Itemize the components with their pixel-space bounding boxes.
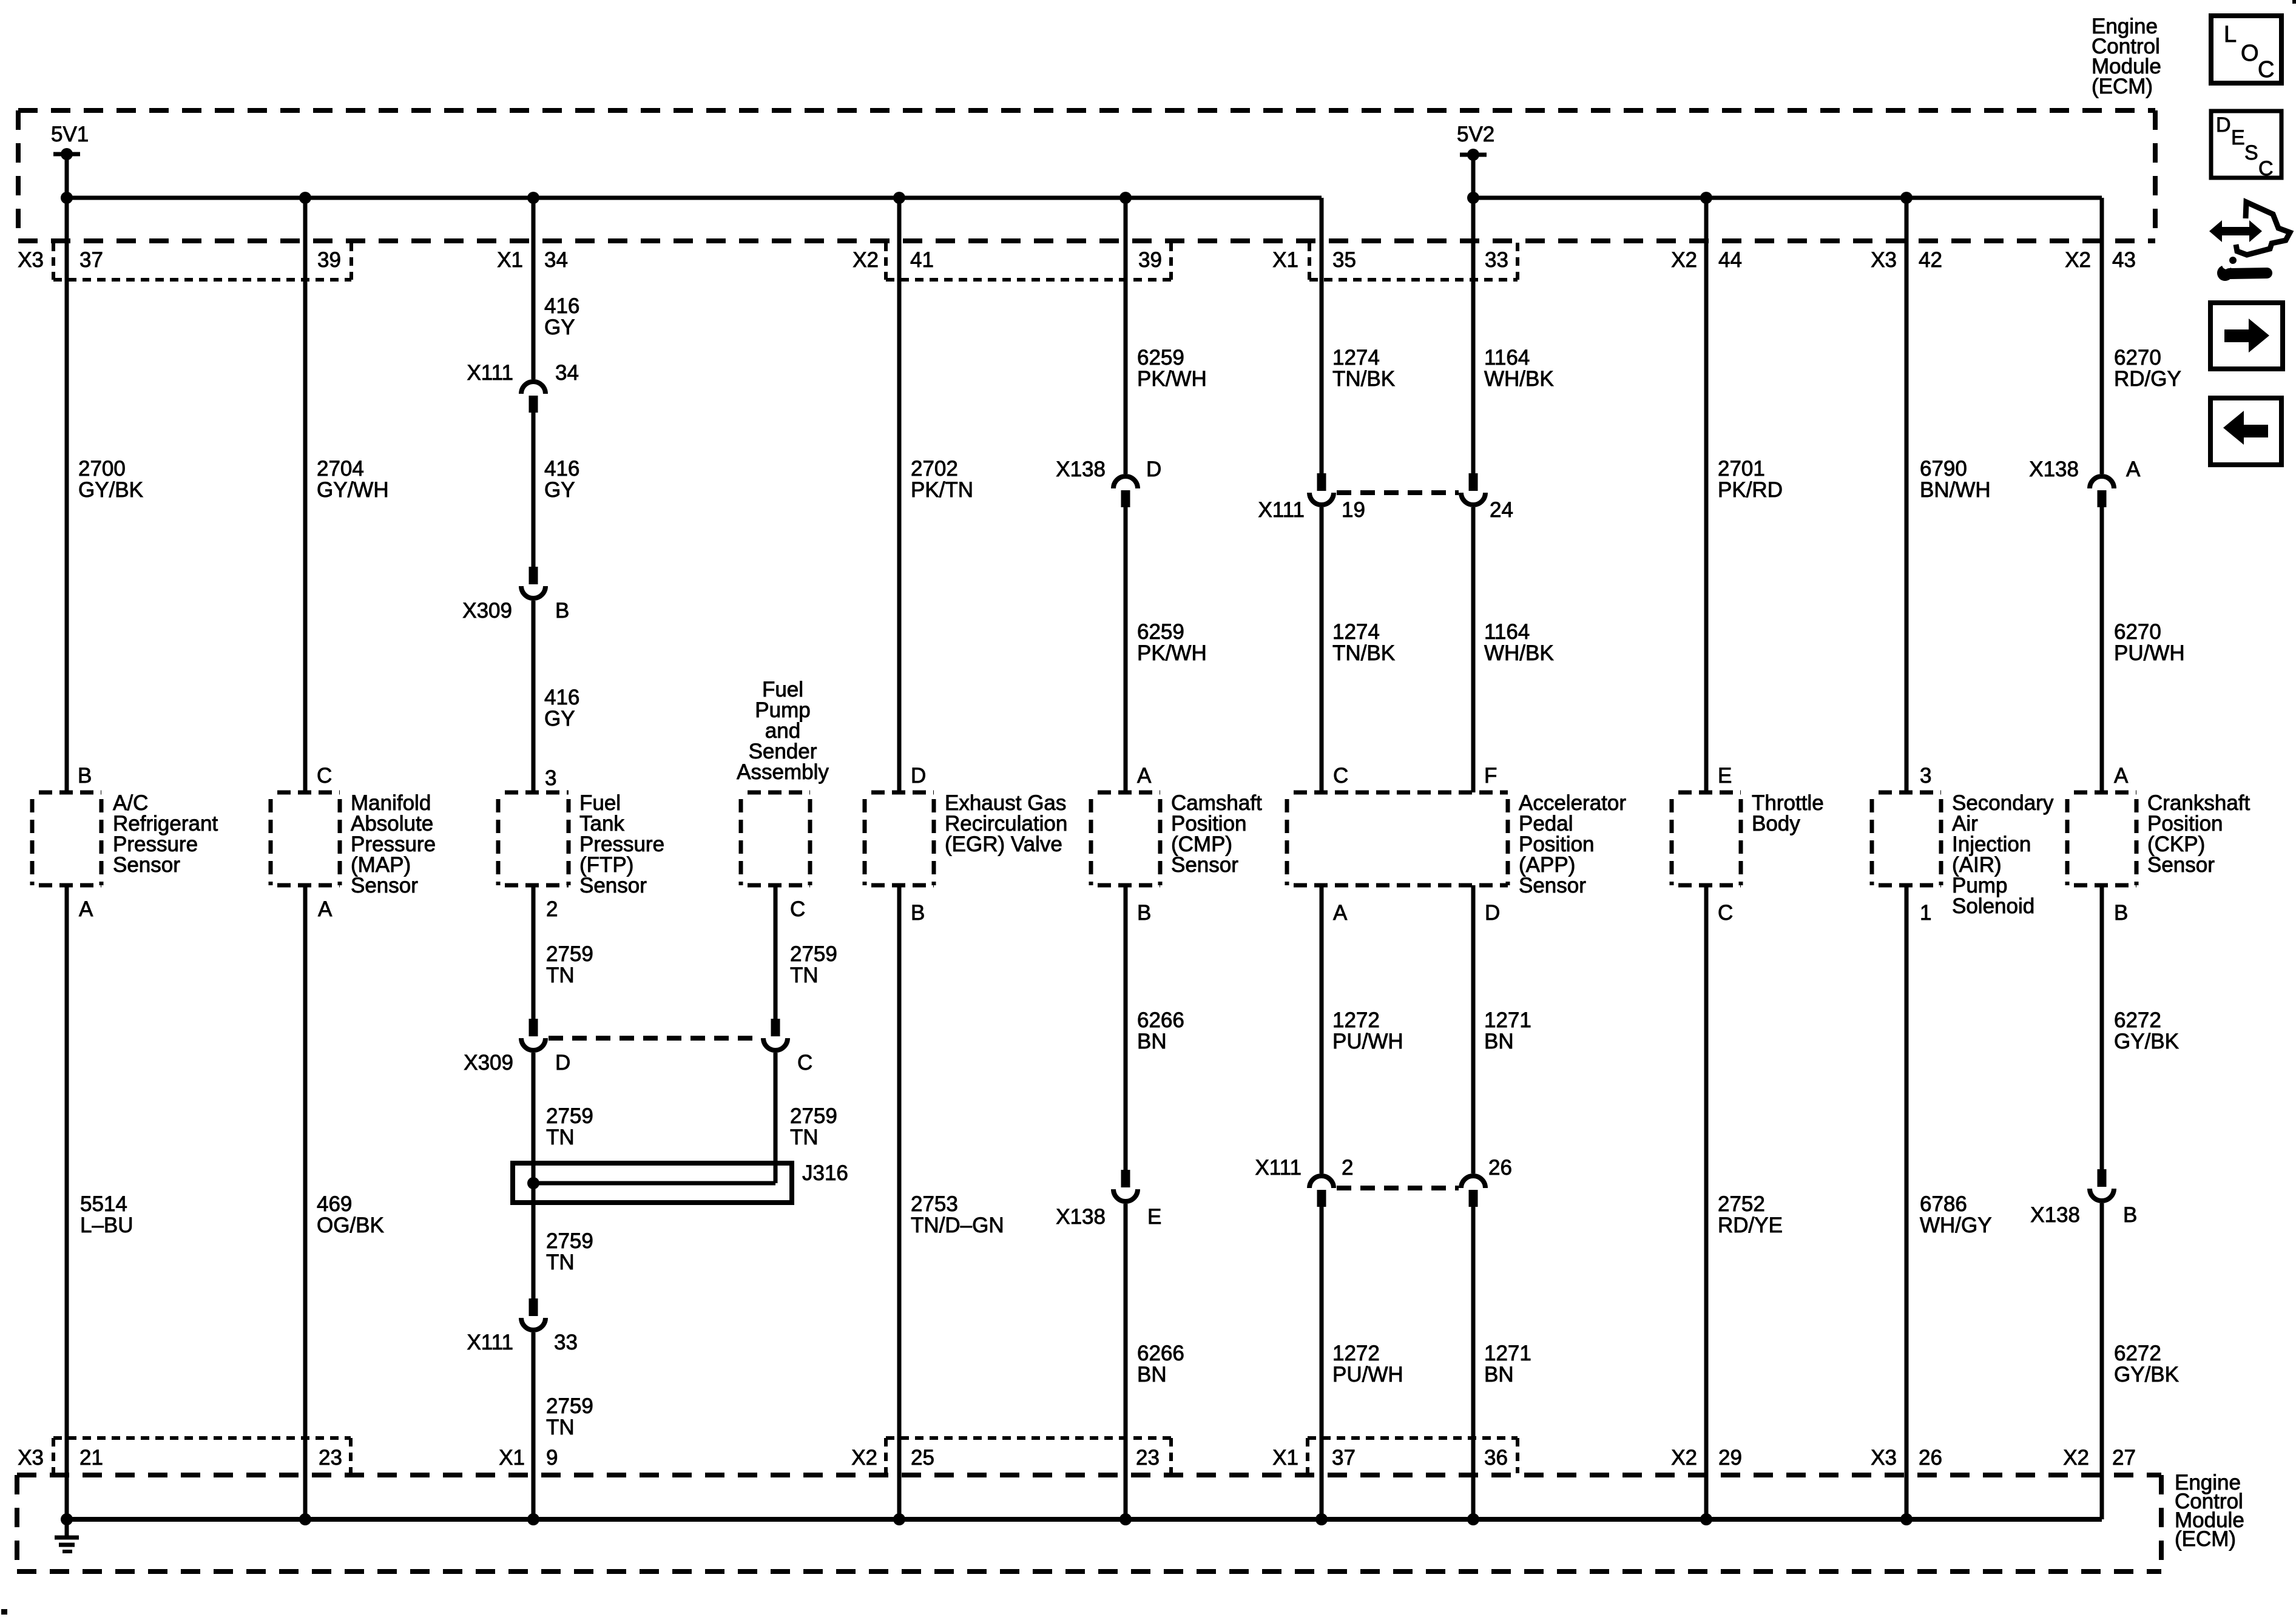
svg-text:TN: TN: [546, 1251, 575, 1274]
svg-text:1272: 1272: [1332, 1342, 1380, 1365]
svg-text:6259: 6259: [1137, 346, 1184, 370]
svg-text:C: C: [2258, 157, 2274, 180]
wire 416 GY segment 2: [532, 413, 536, 567]
wire 1271 label 2: [1484, 1342, 1531, 1386]
ECM top label: [2092, 15, 2161, 98]
connector X138 pin B: [2030, 1169, 2137, 1227]
wire 1164 label 2: [1484, 620, 1554, 665]
A/C refrigerant pressure sensor box: [32, 792, 101, 885]
svg-text:X3: X3: [18, 1446, 44, 1470]
wire 5514 label: [80, 1192, 133, 1237]
CMP sensor box: [1091, 792, 1160, 885]
top connector bracket X1: [1309, 243, 1518, 280]
wire 6259 label 2: [1137, 620, 1207, 665]
svg-text:BN: BN: [1137, 1363, 1167, 1386]
wire 6272 label 1: [2114, 1008, 2179, 1053]
svg-text:D: D: [555, 1051, 570, 1075]
svg-text:A: A: [318, 897, 333, 921]
svg-text:WH/BK: WH/BK: [1484, 367, 1554, 391]
svg-text:WH/GY: WH/GY: [1920, 1214, 1992, 1237]
svg-text:X111: X111: [1255, 1156, 1302, 1180]
svg-text:X2: X2: [2063, 1446, 2089, 1470]
svg-text:E: E: [2231, 126, 2245, 149]
svg-text:GY: GY: [544, 316, 575, 339]
svg-text:35: 35: [1332, 248, 1356, 272]
wire 416 label 3: [544, 686, 579, 731]
ECM bottom module dashed box: [17, 1475, 2161, 1571]
A/C refrigerant pressure sensor label: [113, 791, 218, 877]
svg-text:29: 29: [1718, 1446, 1742, 1470]
svg-text:PK/RD: PK/RD: [1718, 478, 1783, 502]
top connector bracket X2: [886, 243, 1171, 280]
throttle body label: [1752, 791, 1824, 836]
svg-text:6272: 6272: [2114, 1342, 2161, 1365]
svg-text:X3: X3: [1871, 248, 1897, 272]
svg-text:C: C: [2258, 57, 2274, 83]
connector X138 pin E: [1056, 1170, 1161, 1229]
MAP sensor box: [271, 792, 340, 885]
svg-text:TN/BK: TN/BK: [1332, 367, 1395, 391]
svg-text:X111: X111: [467, 1331, 513, 1354]
svg-text:B: B: [555, 599, 569, 623]
ground symbol: [55, 1519, 79, 1551]
svg-text:5V2: 5V2: [1457, 123, 1494, 146]
forward arrow icon box: [2210, 303, 2283, 369]
wire 1274 label 1: [1332, 346, 1395, 391]
svg-text:44: 44: [1718, 248, 1742, 272]
top pin row labels: [18, 248, 2136, 272]
wire 5V2 drop: [1471, 155, 1476, 198]
wire 469 label: [317, 1192, 384, 1237]
svg-text:O: O: [2241, 41, 2259, 66]
svg-text:25: 25: [911, 1446, 934, 1470]
svg-text:39: 39: [1138, 248, 1162, 272]
svg-text:1164: 1164: [1484, 620, 1530, 644]
svg-text:5514: 5514: [80, 1192, 127, 1216]
svg-text:TN: TN: [790, 1126, 819, 1149]
svg-text:(ECM): (ECM): [2175, 1527, 2236, 1551]
svg-text:GY: GY: [544, 478, 575, 502]
svg-text:33: 33: [554, 1331, 578, 1354]
5V1 supply terminal: [51, 123, 89, 160]
svg-text:BN/WH: BN/WH: [1920, 478, 1991, 502]
DESC icon box: [2211, 111, 2281, 180]
svg-text:34: 34: [555, 361, 579, 385]
wire 2759 TN fuel pump segment 1: [774, 885, 778, 1019]
svg-text:6266: 6266: [1137, 1342, 1184, 1365]
svg-text:X2: X2: [853, 248, 879, 272]
svg-text:B: B: [78, 764, 92, 788]
wire 2701 PK/RD: [1704, 198, 1709, 792]
svg-text:2759: 2759: [546, 942, 593, 966]
svg-text:X138: X138: [1056, 457, 1106, 481]
svg-text:416: 416: [544, 457, 579, 481]
svg-text:E: E: [1147, 1205, 1161, 1229]
svg-text:TN: TN: [546, 1416, 575, 1439]
wire 5V1 drop: [65, 154, 69, 198]
wire 1274 TN/BK segment 2: [1320, 507, 1324, 792]
wire 1274 TN/BK segment 1: [1320, 198, 1324, 473]
wire 2704 GY/WH: [303, 198, 308, 792]
svg-text:X2: X2: [1671, 248, 1697, 272]
wire 1271 BN segment 2: [1471, 1207, 1476, 1519]
svg-text:1272: 1272: [1332, 1008, 1380, 1032]
connector X111 pin 26: [1461, 1156, 1512, 1207]
svg-text:X3: X3: [18, 248, 44, 272]
svg-text:PK/WH: PK/WH: [1137, 641, 1207, 665]
svg-text:2702: 2702: [911, 457, 958, 481]
wire 6270 PU/WH segment: [2100, 507, 2104, 792]
svg-text:26: 26: [1488, 1156, 1512, 1180]
svg-text:6270: 6270: [2114, 620, 2161, 644]
svg-text:42: 42: [1919, 248, 1942, 272]
svg-text:1271: 1271: [1484, 1342, 1531, 1365]
svg-text:TN/D–GN: TN/D–GN: [911, 1214, 1004, 1237]
wire 2759 TN segment 4: [532, 1332, 536, 1519]
APP sensor box: [1287, 792, 1508, 885]
svg-text:2759: 2759: [546, 1229, 593, 1253]
svg-text:A: A: [1137, 764, 1152, 788]
svg-text:2759: 2759: [546, 1104, 593, 1128]
svg-text:33: 33: [1485, 248, 1508, 272]
ECM bottom label: [2175, 1471, 2244, 1551]
connector X138 pin D: [1056, 457, 1161, 507]
svg-text:X1: X1: [497, 248, 523, 272]
svg-text:BN: BN: [1137, 1030, 1167, 1053]
svg-text:TN: TN: [546, 1126, 575, 1149]
svg-text:S: S: [2244, 141, 2258, 164]
svg-text:X138: X138: [1056, 1205, 1106, 1229]
wire 6266 BN segment 2: [1124, 1204, 1128, 1519]
svg-text:2: 2: [1342, 1156, 1353, 1180]
svg-text:PU/WH: PU/WH: [2114, 641, 2185, 665]
EGR valve box: [865, 792, 934, 885]
wire 2704 label: [317, 457, 389, 502]
wire 2759 TN segment 2: [532, 1053, 536, 1298]
svg-text:2704: 2704: [317, 457, 364, 481]
wire 2700 GY/BK: [65, 198, 69, 792]
svg-text:(ECM): (ECM): [2092, 75, 2153, 98]
throttle body box: [1672, 792, 1741, 885]
junction dots on ground bus: [61, 1513, 1913, 1525]
fuel pump and sender assembly box: [741, 792, 810, 885]
svg-text:Sensor: Sensor: [579, 874, 647, 897]
bottom connector bracket X3: [53, 1438, 351, 1473]
svg-text:B: B: [2114, 901, 2128, 925]
wire 469 OG/BK: [303, 885, 308, 1519]
svg-text:1274: 1274: [1332, 620, 1380, 644]
svg-text:1271: 1271: [1484, 1008, 1531, 1032]
wire 2752 label: [1718, 1192, 1783, 1237]
FTP sensor box: [498, 792, 569, 885]
svg-text:GY/WH: GY/WH: [317, 478, 389, 502]
svg-text:PU/WH: PU/WH: [1332, 1363, 1403, 1386]
svg-text:6270: 6270: [2114, 346, 2161, 370]
svg-text:39: 39: [317, 248, 341, 272]
wire ground bus: [67, 1517, 2102, 1522]
wire 6266 label 2: [1137, 1342, 1184, 1386]
wire 5514 L-BU: [65, 885, 69, 1519]
wire 1164 WH/BK segment 1: [1471, 198, 1476, 473]
svg-text:1164: 1164: [1484, 346, 1530, 370]
5V2 supply terminal: [1457, 123, 1494, 161]
connector X309 link dashed: [549, 1036, 760, 1041]
svg-text:2759: 2759: [546, 1394, 593, 1418]
splice J316: [513, 1161, 848, 1203]
EGR valve label: [945, 791, 1067, 856]
svg-text:C: C: [797, 1051, 812, 1075]
svg-text:6259: 6259: [1137, 620, 1184, 644]
svg-text:PU/WH: PU/WH: [1332, 1030, 1403, 1053]
AIR pump solenoid box: [1872, 792, 1941, 885]
wire 2759 label 1: [546, 942, 593, 987]
svg-text:37: 37: [1332, 1446, 1356, 1470]
svg-text:1: 1: [1920, 901, 1931, 925]
wire 2702 PK/TN: [897, 198, 902, 792]
svg-text:X1: X1: [1272, 1446, 1298, 1470]
wire 416 GY segment 1: [532, 198, 536, 379]
svg-text:OG/BK: OG/BK: [317, 1214, 384, 1237]
svg-text:X1: X1: [1272, 248, 1298, 272]
LOC icon box: [2211, 16, 2281, 83]
wire 2759 TN segment 1: [532, 885, 536, 1019]
svg-text:21: 21: [79, 1446, 103, 1470]
svg-text:GY: GY: [544, 707, 575, 731]
svg-text:A: A: [79, 897, 93, 921]
connector X111 pin 2: [1255, 1156, 1353, 1207]
wire 6259 PK/WH segment 2: [1124, 507, 1128, 792]
junction dots on 5V1 bus: [61, 192, 1132, 204]
svg-text:L–BU: L–BU: [80, 1214, 133, 1237]
connector X111 2-26 link dashed: [1337, 1186, 1459, 1190]
svg-text:D: D: [2216, 113, 2231, 137]
svg-text:6266: 6266: [1137, 1008, 1184, 1032]
svg-text:C: C: [1718, 901, 1733, 925]
wire 6270 RD/GY segment 1: [2100, 198, 2104, 474]
svg-text:GY/BK: GY/BK: [78, 478, 143, 502]
ECM top module dashed box: [18, 110, 2155, 241]
svg-text:C: C: [790, 897, 805, 921]
wire 6270 PU/WH label: [2114, 620, 2185, 665]
svg-text:6786: 6786: [1920, 1192, 1967, 1216]
svg-text:2752: 2752: [1718, 1192, 1765, 1216]
connector X309 pin C: [763, 1019, 812, 1075]
svg-text:GY/BK: GY/BK: [2114, 1363, 2179, 1386]
wire 416 GY segment 3: [532, 601, 536, 792]
wire 1164 WH/BK segment 2: [1471, 507, 1476, 792]
svg-text:X3: X3: [1871, 1446, 1897, 1470]
svg-text:C: C: [1333, 764, 1348, 788]
wire 2753 label: [911, 1192, 1004, 1237]
svg-text:24: 24: [1490, 498, 1513, 522]
APP sensor label: [1519, 791, 1626, 897]
wire 1271 BN segment 1: [1471, 885, 1476, 1173]
svg-text:Sensor: Sensor: [1519, 874, 1586, 897]
wire 2759 label 3: [546, 1229, 593, 1274]
connector X111 pin 34: [467, 361, 578, 413]
svg-text:X309: X309: [464, 1051, 513, 1075]
wire 2702 label: [911, 457, 973, 502]
svg-text:X111: X111: [1258, 498, 1305, 522]
svg-text:GY/BK: GY/BK: [2114, 1030, 2179, 1053]
svg-text:19: 19: [1342, 498, 1365, 522]
connector X111 pin 24: [1461, 473, 1513, 522]
svg-text:1274: 1274: [1332, 346, 1380, 370]
wire 2701 label: [1718, 457, 1783, 502]
svg-text:RD/GY: RD/GY: [2114, 367, 2181, 391]
wire 2759 fuel pump label 1: [790, 942, 837, 987]
svg-text:A: A: [2114, 764, 2129, 788]
wire 6272 GY/BK segment 1: [2100, 885, 2104, 1169]
connector X111 pin 33: [467, 1298, 577, 1354]
wire 6270 RD/GY label: [2114, 346, 2181, 391]
svg-text:416: 416: [544, 686, 579, 709]
svg-text:X1: X1: [499, 1446, 525, 1470]
wire 6272 label 2: [2114, 1342, 2179, 1386]
svg-text:2759: 2759: [790, 942, 837, 966]
top connector bracket X3: [53, 243, 351, 280]
connector X309 pin D: [464, 1019, 570, 1075]
svg-text:X2: X2: [2065, 248, 2091, 272]
wire 2752 RD/YE: [1704, 885, 1709, 1519]
MAP sensor label: [351, 791, 436, 897]
AIR pump solenoid label: [1952, 791, 2054, 918]
wire 6266 BN segment 1: [1124, 885, 1128, 1170]
wire 2759 fuel pump label 2: [790, 1104, 837, 1149]
svg-text:BN: BN: [1484, 1030, 1514, 1053]
svg-text:26: 26: [1919, 1446, 1942, 1470]
svg-text:X138: X138: [2029, 457, 2079, 481]
wire 6786 label: [1920, 1192, 1992, 1237]
svg-text:E: E: [1718, 764, 1732, 788]
FTP sensor label: [579, 791, 664, 897]
svg-text:3: 3: [545, 766, 556, 790]
svg-text:(EGR) Valve: (EGR) Valve: [945, 832, 1062, 856]
svg-text:Sensor: Sensor: [1171, 853, 1238, 877]
fuel pump and sender assembly label: [737, 678, 829, 784]
wire 416 label 2: [544, 457, 579, 502]
svg-text:B: B: [2123, 1203, 2137, 1227]
wire 6266 label 1: [1137, 1008, 1184, 1053]
svg-text:9: 9: [546, 1446, 558, 1470]
svg-text:6790: 6790: [1920, 457, 1967, 481]
svg-text:37: 37: [79, 248, 103, 272]
wire 6259 PK/WH segment 1: [1124, 198, 1128, 474]
svg-text:3: 3: [1920, 764, 1931, 788]
junction dots on 5V2 bus: [1467, 192, 1913, 204]
svg-text:D: D: [1485, 901, 1500, 925]
svg-text:23: 23: [319, 1446, 342, 1470]
wire 416 label 1: [544, 294, 579, 339]
wire 6259 label 1: [1137, 346, 1207, 391]
svg-text:43: 43: [2112, 248, 2136, 272]
CMP sensor label: [1171, 791, 1262, 877]
connector X138 pin A: [2029, 457, 2141, 507]
svg-text:Sensor: Sensor: [113, 853, 180, 877]
svg-text:Body: Body: [1752, 812, 1800, 836]
wire 5V1 bus: [67, 196, 1322, 200]
bottom connector bracket X2: [886, 1438, 1171, 1473]
wire 2759 TN fuel pump segment 2: [774, 1053, 778, 1183]
svg-text:A: A: [2126, 457, 2141, 481]
svg-text:B: B: [911, 901, 925, 925]
wire 5V2 bus: [1473, 196, 2102, 200]
svg-text:2753: 2753: [911, 1192, 958, 1216]
svg-text:2701: 2701: [1718, 457, 1765, 481]
svg-text:23: 23: [1136, 1446, 1160, 1470]
svg-text:Assembly: Assembly: [737, 760, 829, 784]
connector X111 pin 19: [1258, 473, 1365, 522]
svg-text:2700: 2700: [78, 457, 126, 481]
svg-text:PK/WH: PK/WH: [1137, 367, 1207, 391]
svg-text:TN/BK: TN/BK: [1332, 641, 1395, 665]
svg-text:X111: X111: [467, 361, 513, 385]
wire 6786 WH/GY: [1905, 885, 1909, 1519]
wire 1272 PU/WH segment 1: [1320, 885, 1324, 1173]
wire 1274 label 2: [1332, 620, 1395, 665]
wire 2759 label 2: [546, 1104, 593, 1149]
connector X309 pin B: [462, 567, 569, 623]
CKP sensor label: [2147, 791, 2250, 877]
svg-text:X309: X309: [462, 599, 512, 623]
wire 1271 label 1: [1484, 1008, 1531, 1053]
svg-text:B: B: [1137, 901, 1151, 925]
svg-text:2: 2: [546, 897, 558, 921]
svg-text:D: D: [1146, 457, 1161, 481]
svg-text:469: 469: [317, 1192, 352, 1216]
svg-text:WH/BK: WH/BK: [1484, 641, 1554, 665]
svg-text:5V1: 5V1: [51, 123, 89, 146]
CKP sensor box: [2067, 792, 2136, 885]
svg-text:X2: X2: [851, 1446, 877, 1470]
bottom connector bracket X1: [1308, 1438, 1518, 1473]
svg-text:Sensor: Sensor: [2147, 853, 2215, 877]
svg-text:2759: 2759: [790, 1104, 837, 1128]
wire 6272 GY/BK segment 2: [2100, 1203, 2104, 1519]
svg-text:J316: J316: [802, 1161, 848, 1185]
svg-text:L: L: [2224, 22, 2237, 47]
svg-text:36: 36: [1484, 1446, 1508, 1470]
svg-text:Sensor: Sensor: [351, 874, 418, 897]
svg-text:Solenoid: Solenoid: [1952, 894, 2034, 918]
svg-text:TN: TN: [790, 964, 819, 987]
wire 1272 PU/WH segment 2: [1320, 1207, 1324, 1519]
svg-text:A: A: [1333, 901, 1348, 925]
back arrow icon box: [2210, 398, 2281, 465]
svg-text:41: 41: [910, 248, 934, 272]
page mark: [1, 1609, 7, 1615]
svg-text:34: 34: [544, 248, 568, 272]
wire 6790 label: [1920, 457, 1991, 502]
svg-text:6272: 6272: [2114, 1008, 2161, 1032]
wire 1164 label 1: [1484, 346, 1554, 391]
svg-text:X2: X2: [1671, 1446, 1697, 1470]
wire 1272 label 2: [1332, 1342, 1403, 1386]
wire 6790 BN/WH: [1905, 198, 1909, 792]
svg-text:F: F: [1484, 764, 1497, 788]
page corner mark: [2292, 0, 2296, 4]
connector X111 19-24 link dashed: [1337, 490, 1459, 495]
wire 1272 label 1: [1332, 1008, 1403, 1053]
svg-text:BN: BN: [1484, 1363, 1514, 1386]
svg-text:27: 27: [2112, 1446, 2136, 1470]
wire 2759 label 4: [546, 1394, 593, 1439]
wire 2700 label: [78, 457, 143, 502]
svg-text:TN: TN: [546, 964, 575, 987]
wiring repair icon: [2209, 202, 2290, 281]
wire 2753 TN/D-GN: [897, 885, 902, 1519]
svg-text:416: 416: [544, 294, 579, 318]
